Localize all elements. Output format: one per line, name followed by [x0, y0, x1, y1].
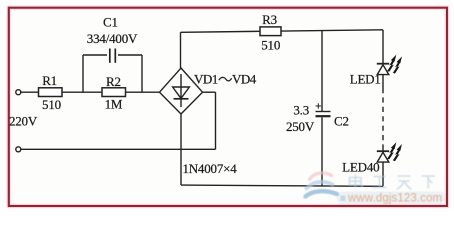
svg-text:1N4007×4: 1N4007×4 — [182, 161, 237, 176]
svg-text:≡: ≡ — [340, 194, 346, 205]
svg-text:LED40: LED40 — [342, 159, 379, 174]
svg-text:220V: 220V — [9, 114, 38, 129]
svg-text:C1: C1 — [103, 15, 118, 30]
svg-text:510: 510 — [261, 37, 280, 52]
svg-text:VD4: VD4 — [232, 72, 257, 87]
svg-text:3.3: 3.3 — [293, 103, 309, 118]
svg-text:VD1: VD1 — [194, 72, 218, 87]
svg-text:1M: 1M — [105, 97, 123, 112]
svg-text:R2: R2 — [106, 74, 121, 89]
svg-text:C2: C2 — [334, 113, 349, 128]
svg-text:LED1: LED1 — [350, 71, 381, 86]
svg-text:250V: 250V — [286, 119, 315, 134]
svg-text:R1: R1 — [42, 73, 57, 88]
svg-text:R3: R3 — [262, 12, 277, 27]
svg-text:www.dgjs123.com: www.dgjs123.com — [347, 193, 442, 205]
svg-text:334/400V: 334/400V — [87, 31, 138, 46]
svg-text:510: 510 — [42, 97, 61, 112]
